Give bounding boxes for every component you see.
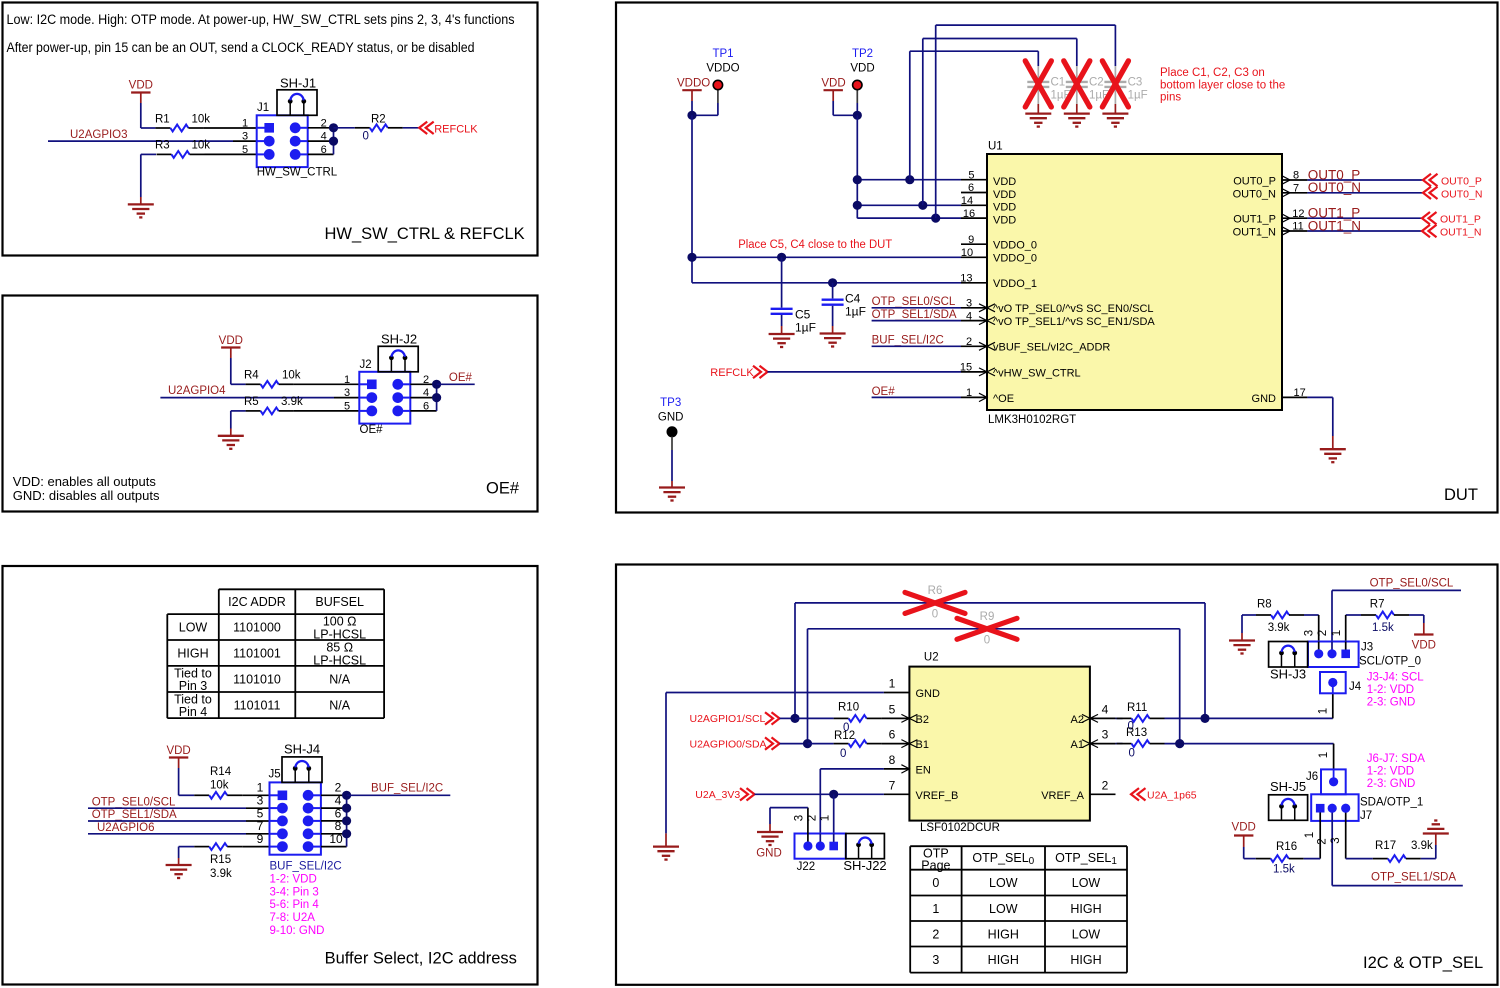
svg-text:LP-HCSL: LP-HCSL — [313, 628, 366, 642]
svg-text:^vO TP_SEL1/^vS SC_EN1/SDA: ^vO TP_SEL1/^vS SC_EN1/SDA — [993, 316, 1155, 328]
svg-text:1-2: VDD: 1-2: VDD — [1367, 766, 1414, 778]
svg-text:5: 5 — [889, 703, 896, 717]
svg-text:U2: U2 — [924, 652, 939, 664]
svg-text:A2: A2 — [1071, 714, 1084, 726]
svg-text:OUT0_P: OUT0_P — [1233, 176, 1276, 188]
svg-text:R12: R12 — [834, 730, 855, 742]
svg-text:OTP_SEL0/SCL: OTP_SEL0/SCL — [872, 296, 956, 308]
svg-text:OE#: OE# — [360, 424, 384, 436]
svg-text:1µF: 1µF — [1128, 90, 1148, 102]
svg-text:GND: disables all outputs: GND: disables all outputs — [13, 488, 160, 503]
svg-text:VDDO_0: VDDO_0 — [993, 252, 1037, 264]
svg-text:4: 4 — [1102, 703, 1109, 717]
svg-text:8: 8 — [1293, 170, 1299, 182]
svg-text:LOW: LOW — [989, 876, 1018, 890]
svg-text:3.9k: 3.9k — [210, 868, 232, 880]
svg-text:0: 0 — [932, 876, 939, 890]
svg-text:U2AGPIO3: U2AGPIO3 — [70, 129, 128, 141]
svg-text:5-6: Pin 4: 5-6: Pin 4 — [270, 899, 320, 911]
svg-text:C3: C3 — [1128, 77, 1143, 89]
svg-text:C2: C2 — [1089, 77, 1104, 89]
svg-text:1: 1 — [966, 387, 972, 399]
svg-text:J4: J4 — [1349, 681, 1362, 693]
svg-text:OTP_SEL0/SCL: OTP_SEL0/SCL — [1370, 578, 1454, 590]
svg-text:I2C ADDR: I2C ADDR — [228, 595, 286, 609]
svg-text:1101001: 1101001 — [233, 646, 281, 660]
svg-text:B2: B2 — [916, 714, 929, 726]
svg-text:OUT0_N: OUT0_N — [1441, 188, 1482, 200]
svg-text:3: 3 — [344, 387, 350, 399]
svg-text:1-2: VDD: 1-2: VDD — [1367, 684, 1414, 696]
svg-text:VREF_A: VREF_A — [1041, 790, 1084, 802]
svg-text:5: 5 — [344, 401, 350, 413]
svg-text:U2AGPIO0/SDA: U2AGPIO0/SDA — [690, 738, 767, 750]
svg-text:0: 0 — [840, 748, 846, 760]
svg-text:VDDO_1: VDDO_1 — [993, 278, 1037, 290]
svg-text:11: 11 — [1292, 221, 1303, 233]
svg-text:3: 3 — [932, 953, 939, 967]
svg-text:VDD: VDD — [993, 189, 1016, 201]
svg-text:10k: 10k — [210, 780, 229, 792]
svg-text:OTP_SEL1/SDA: OTP_SEL1/SDA — [1371, 872, 1456, 884]
svg-text:9: 9 — [968, 234, 974, 246]
svg-text:1: 1 — [820, 815, 832, 821]
svg-text:4: 4 — [321, 131, 327, 143]
svg-text:1: 1 — [1318, 708, 1330, 714]
svg-text:After power-up, pin 15 can be: After power-up, pin 15 can be an OUT, se… — [7, 40, 475, 55]
svg-text:U2AGPIO4: U2AGPIO4 — [168, 385, 226, 397]
svg-text:R11: R11 — [1127, 702, 1147, 714]
svg-text:1: 1 — [889, 677, 896, 691]
svg-text:TP2: TP2 — [852, 48, 873, 60]
svg-text:2: 2 — [1317, 838, 1329, 844]
svg-text:1.5k: 1.5k — [1372, 622, 1394, 634]
svg-text:OTP_SEL0: OTP_SEL0 — [972, 851, 1034, 867]
svg-text:VDD: VDD — [166, 745, 190, 757]
svg-text:GND: GND — [756, 848, 782, 860]
svg-text:^vO TP_SEL0/^vS SC_EN0/SCL: ^vO TP_SEL0/^vS SC_EN0/SCL — [993, 303, 1154, 315]
svg-text:REFCLK: REFCLK — [710, 367, 754, 379]
svg-text:VDDO: VDDO — [706, 63, 739, 75]
svg-text:17: 17 — [1293, 387, 1305, 399]
svg-text:GND: GND — [1252, 393, 1277, 405]
svg-text:vBUF_SEL/vI2C_ADDR: vBUF_SEL/vI2C_ADDR — [993, 342, 1110, 354]
svg-text:J7: J7 — [1360, 810, 1372, 822]
svg-text:VDD: VDD — [219, 335, 243, 347]
svg-text:J5: J5 — [269, 769, 281, 781]
svg-text:6: 6 — [968, 182, 974, 194]
svg-text:^OE: ^OE — [993, 393, 1014, 405]
svg-text:SDA/OTP_1: SDA/OTP_1 — [1360, 797, 1423, 809]
svg-text:OUT1_N: OUT1_N — [1440, 227, 1481, 239]
svg-text:R3: R3 — [155, 140, 170, 152]
svg-text:U2AGPIO1/SCL: U2AGPIO1/SCL — [690, 713, 766, 725]
svg-text:9-10: GND: 9-10: GND — [270, 925, 325, 937]
svg-text:1: 1 — [1331, 630, 1343, 636]
svg-text:3.9k: 3.9k — [1411, 840, 1433, 852]
svg-text:1101010: 1101010 — [233, 672, 281, 686]
svg-text:LP-HCSL: LP-HCSL — [313, 653, 366, 667]
svg-text:SH-J4: SH-J4 — [284, 742, 320, 757]
svg-text:J2: J2 — [360, 359, 372, 371]
svg-text:6: 6 — [889, 728, 896, 742]
svg-text:N/A: N/A — [329, 672, 351, 686]
svg-text:HW_SW_CTRL: HW_SW_CTRL — [257, 167, 338, 179]
svg-text:VREF_B: VREF_B — [916, 790, 959, 802]
svg-text:TP1: TP1 — [712, 48, 733, 60]
svg-text:LOW: LOW — [1072, 927, 1101, 941]
svg-text:1: 1 — [344, 374, 350, 386]
svg-text:2: 2 — [1102, 778, 1109, 792]
svg-text:LSF0102DCUR: LSF0102DCUR — [920, 822, 1000, 834]
svg-text:^vHW_SW_CTRL: ^vHW_SW_CTRL — [993, 367, 1081, 379]
svg-text:9: 9 — [257, 832, 264, 846]
svg-text:LOW: LOW — [179, 621, 208, 635]
svg-text:R15: R15 — [210, 854, 231, 866]
svg-text:SH-J3: SH-J3 — [1270, 667, 1306, 682]
svg-text:SH-J1: SH-J1 — [280, 76, 316, 91]
svg-text:BUF_SEL/I2C: BUF_SEL/I2C — [872, 335, 944, 347]
svg-text:A1: A1 — [1071, 739, 1084, 751]
svg-text:LMK3H0102RGT: LMK3H0102RGT — [988, 414, 1076, 426]
svg-text:5: 5 — [242, 144, 248, 156]
svg-text:0: 0 — [363, 131, 369, 143]
svg-text:J3: J3 — [1361, 642, 1373, 654]
svg-text:2-3: GND: 2-3: GND — [1367, 778, 1416, 790]
svg-text:bottom layer close to the: bottom layer close to the — [1160, 79, 1285, 91]
svg-text:J22: J22 — [797, 861, 816, 873]
svg-text:12: 12 — [1292, 208, 1304, 220]
svg-text:3.9k: 3.9k — [1268, 622, 1290, 634]
svg-text:U2A_3V3: U2A_3V3 — [695, 789, 740, 801]
svg-text:R7: R7 — [1370, 599, 1385, 611]
svg-text:B1: B1 — [916, 739, 929, 751]
svg-text:1: 1 — [1304, 832, 1316, 838]
svg-text:J1: J1 — [257, 102, 269, 114]
svg-text:R17: R17 — [1375, 840, 1396, 852]
svg-text:OUT0_N: OUT0_N — [1233, 188, 1276, 200]
svg-text:C4: C4 — [845, 292, 861, 306]
svg-text:HIGH: HIGH — [988, 953, 1019, 967]
svg-text:10k: 10k — [282, 370, 301, 382]
svg-text:10: 10 — [961, 247, 973, 259]
svg-text:7: 7 — [889, 778, 896, 792]
svg-text:R1: R1 — [155, 114, 170, 126]
svg-text:1101011: 1101011 — [234, 699, 281, 713]
svg-text:8: 8 — [889, 753, 896, 767]
svg-text:BUF_SEL/I2C: BUF_SEL/I2C — [270, 861, 342, 873]
svg-text:C1: C1 — [1051, 77, 1066, 89]
svg-text:REFCLK: REFCLK — [434, 123, 478, 135]
svg-text:0: 0 — [984, 635, 990, 647]
svg-text:14: 14 — [961, 195, 973, 207]
svg-text:10k: 10k — [192, 140, 211, 152]
svg-text:2: 2 — [966, 336, 972, 348]
svg-text:HIGH: HIGH — [177, 646, 208, 660]
svg-text:VDD: VDD — [1412, 640, 1436, 652]
svg-text:VDDO_0: VDDO_0 — [993, 240, 1037, 252]
svg-text:BUF_SEL/I2C: BUF_SEL/I2C — [371, 783, 443, 795]
svg-text:4: 4 — [423, 387, 429, 399]
svg-text:R8: R8 — [1257, 599, 1272, 611]
svg-text:2: 2 — [806, 815, 818, 821]
svg-text:0: 0 — [1129, 748, 1135, 760]
svg-text:R16: R16 — [1276, 841, 1297, 853]
svg-text:6: 6 — [423, 401, 429, 413]
svg-text:Buffer Select, I2C address: Buffer Select, I2C address — [325, 950, 517, 968]
svg-text:VDD: VDD — [850, 63, 874, 75]
svg-text:OUT1_P: OUT1_P — [1440, 214, 1481, 226]
svg-text:J6-J7: SDA: J6-J7: SDA — [1367, 753, 1425, 765]
svg-text:VDD: VDD — [129, 80, 153, 92]
svg-text:5: 5 — [257, 806, 264, 820]
svg-text:5: 5 — [968, 169, 974, 181]
svg-text:U1: U1 — [988, 141, 1003, 153]
svg-text:3: 3 — [1304, 630, 1316, 636]
svg-text:OTP_SEL1/SDA: OTP_SEL1/SDA — [92, 809, 177, 821]
svg-text:VDD: enables all outputs: VDD: enables all outputs — [13, 474, 157, 489]
svg-text:Low: I2C mode. High: OTP mode.: Low: I2C mode. High: OTP mode. At power-… — [7, 12, 515, 27]
svg-text:0: 0 — [932, 609, 938, 621]
svg-text:3: 3 — [1330, 837, 1342, 843]
svg-text:1µF: 1µF — [795, 321, 816, 335]
svg-text:R14: R14 — [210, 766, 232, 778]
svg-text:10: 10 — [329, 832, 343, 846]
svg-text:VDDO: VDDO — [677, 78, 710, 90]
svg-text:R13: R13 — [1126, 727, 1147, 739]
svg-text:2: 2 — [321, 117, 327, 129]
svg-text:pins: pins — [1160, 92, 1181, 104]
svg-text:VDD: VDD — [993, 176, 1016, 188]
svg-text:1.5k: 1.5k — [1273, 864, 1295, 876]
svg-text:3.9k: 3.9k — [281, 396, 303, 408]
svg-text:R2: R2 — [371, 114, 386, 126]
svg-text:3: 3 — [1102, 728, 1109, 742]
svg-text:13: 13 — [960, 273, 972, 285]
svg-text:EN: EN — [916, 764, 931, 776]
svg-text:1: 1 — [242, 117, 248, 129]
svg-text:15: 15 — [960, 362, 972, 374]
svg-text:N/A: N/A — [329, 699, 351, 713]
svg-text:HIGH: HIGH — [1070, 953, 1101, 967]
svg-text:OUT1_N: OUT1_N — [1308, 218, 1361, 233]
svg-text:Pin 3: Pin 3 — [179, 679, 208, 693]
svg-text:Page: Page — [921, 858, 950, 872]
svg-text:16: 16 — [963, 208, 975, 220]
svg-text:OTP_SEL1/SDA: OTP_SEL1/SDA — [872, 309, 957, 321]
svg-text:J3-J4: SCL: J3-J4: SCL — [1367, 672, 1424, 684]
svg-text:6: 6 — [335, 806, 342, 820]
svg-text:LOW: LOW — [989, 902, 1018, 916]
svg-text:VDD: VDD — [1232, 822, 1256, 834]
svg-text:10k: 10k — [192, 114, 211, 126]
svg-text:2-3: GND: 2-3: GND — [1367, 697, 1416, 709]
svg-text:OUT1_N: OUT1_N — [1233, 227, 1276, 239]
svg-text:3: 3 — [242, 131, 248, 143]
svg-text:HIGH: HIGH — [1070, 902, 1101, 916]
svg-text:OE#: OE# — [872, 386, 896, 398]
svg-text:85 Ω: 85 Ω — [326, 640, 353, 654]
svg-text:VDD: VDD — [993, 215, 1016, 227]
svg-text:SCL/OTP_0: SCL/OTP_0 — [1359, 655, 1421, 667]
svg-text:VDD: VDD — [821, 78, 845, 90]
svg-text:R9: R9 — [980, 611, 995, 623]
svg-text:BUFSEL: BUFSEL — [315, 595, 364, 609]
svg-text:1: 1 — [932, 902, 939, 916]
svg-text:HIGH: HIGH — [988, 927, 1019, 941]
svg-text:1101000: 1101000 — [233, 621, 281, 635]
svg-text:2: 2 — [423, 374, 429, 386]
svg-text:R6: R6 — [928, 585, 943, 597]
svg-text:OTP_SEL1: OTP_SEL1 — [1055, 851, 1117, 867]
svg-text:GND: GND — [658, 411, 684, 423]
svg-text:SH-J22: SH-J22 — [843, 858, 886, 873]
svg-text:1-2: VDD: 1-2: VDD — [270, 874, 317, 886]
svg-text:R5: R5 — [244, 396, 259, 408]
svg-text:7: 7 — [1293, 183, 1299, 195]
svg-text:U2A_1p65: U2A_1p65 — [1147, 789, 1197, 801]
svg-text:C5: C5 — [795, 308, 811, 322]
svg-text:OUT0_N: OUT0_N — [1308, 180, 1361, 195]
svg-text:SH-J5: SH-J5 — [1270, 779, 1306, 794]
svg-text:Place C5, C4 close to the DUT: Place C5, C4 close to the DUT — [738, 239, 892, 251]
svg-text:6: 6 — [321, 144, 327, 156]
svg-text:HW_SW_CTRL & REFCLK: HW_SW_CTRL & REFCLK — [325, 225, 525, 243]
svg-text:I2C & OTP_SEL: I2C & OTP_SEL — [1363, 954, 1483, 972]
svg-text:J6: J6 — [1306, 771, 1318, 783]
svg-text:VDD: VDD — [993, 202, 1016, 214]
svg-text:1µF: 1µF — [845, 305, 866, 319]
svg-text:2: 2 — [1317, 630, 1329, 636]
svg-text:GND: GND — [916, 688, 941, 700]
svg-text:LOW: LOW — [1072, 876, 1101, 890]
svg-text:U2AGPIO6: U2AGPIO6 — [97, 822, 155, 834]
svg-text:4: 4 — [966, 310, 972, 322]
svg-text:3: 3 — [794, 815, 806, 821]
svg-text:1: 1 — [1318, 752, 1330, 758]
svg-text:OTP_SEL0/SCL: OTP_SEL0/SCL — [92, 796, 176, 808]
svg-text:100 Ω: 100 Ω — [323, 615, 357, 629]
svg-text:3: 3 — [966, 298, 972, 310]
svg-text:R10: R10 — [838, 702, 859, 714]
svg-text:OUT0_P: OUT0_P — [1441, 176, 1482, 188]
svg-text:R4: R4 — [244, 370, 259, 382]
svg-text:OE#: OE# — [486, 480, 520, 498]
svg-text:3-4: Pin 3: 3-4: Pin 3 — [270, 886, 319, 898]
svg-text:TP3: TP3 — [660, 397, 681, 409]
svg-text:Place C1, C2, C3 on: Place C1, C2, C3 on — [1160, 67, 1265, 79]
svg-text:DUT: DUT — [1444, 486, 1478, 504]
svg-text:2: 2 — [932, 927, 939, 941]
svg-text:SH-J2: SH-J2 — [381, 332, 417, 347]
svg-text:OE#: OE# — [449, 372, 473, 384]
svg-text:Pin 4: Pin 4 — [179, 705, 208, 719]
svg-text:7-8: U2A: 7-8: U2A — [270, 912, 316, 924]
svg-text:OUT1_P: OUT1_P — [1233, 214, 1276, 226]
